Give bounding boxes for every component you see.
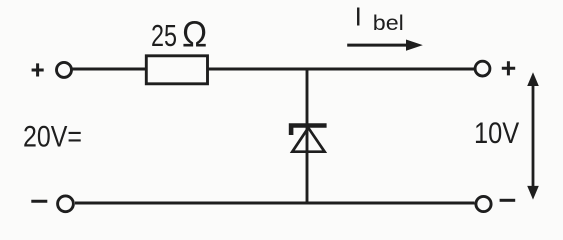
zener diode anode triangle — [292, 128, 324, 152]
wire bottom rail — [75, 202, 475, 205]
svg-text:10V: 10V — [474, 117, 519, 150]
svg-text:20V=: 20V= — [23, 120, 82, 153]
svg-text:25: 25 — [151, 19, 177, 53]
polarity + output — [502, 61, 515, 75]
wire diode branch (junction at node on top rail) — [306, 68, 309, 203]
terminal input negative — [58, 196, 74, 212]
voltage arrow 10V double-headed — [527, 72, 539, 199]
current arrow I_bel — [347, 40, 423, 51]
polarity - input — [31, 200, 47, 203]
terminal input positive — [57, 62, 72, 77]
svg-text:Ω: Ω — [182, 14, 207, 55]
wire top rail — [73, 68, 475, 71]
terminal output negative — [476, 196, 491, 211]
zener diode cathode bar — [289, 123, 327, 135]
resistor 25 ohm body — [146, 56, 207, 84]
polarity + input — [32, 63, 44, 76]
polarity - output — [500, 199, 516, 202]
svg-text:I: I — [355, 1, 362, 31]
svg-text:bel: bel — [373, 12, 404, 35]
terminal output positive — [475, 61, 490, 76]
